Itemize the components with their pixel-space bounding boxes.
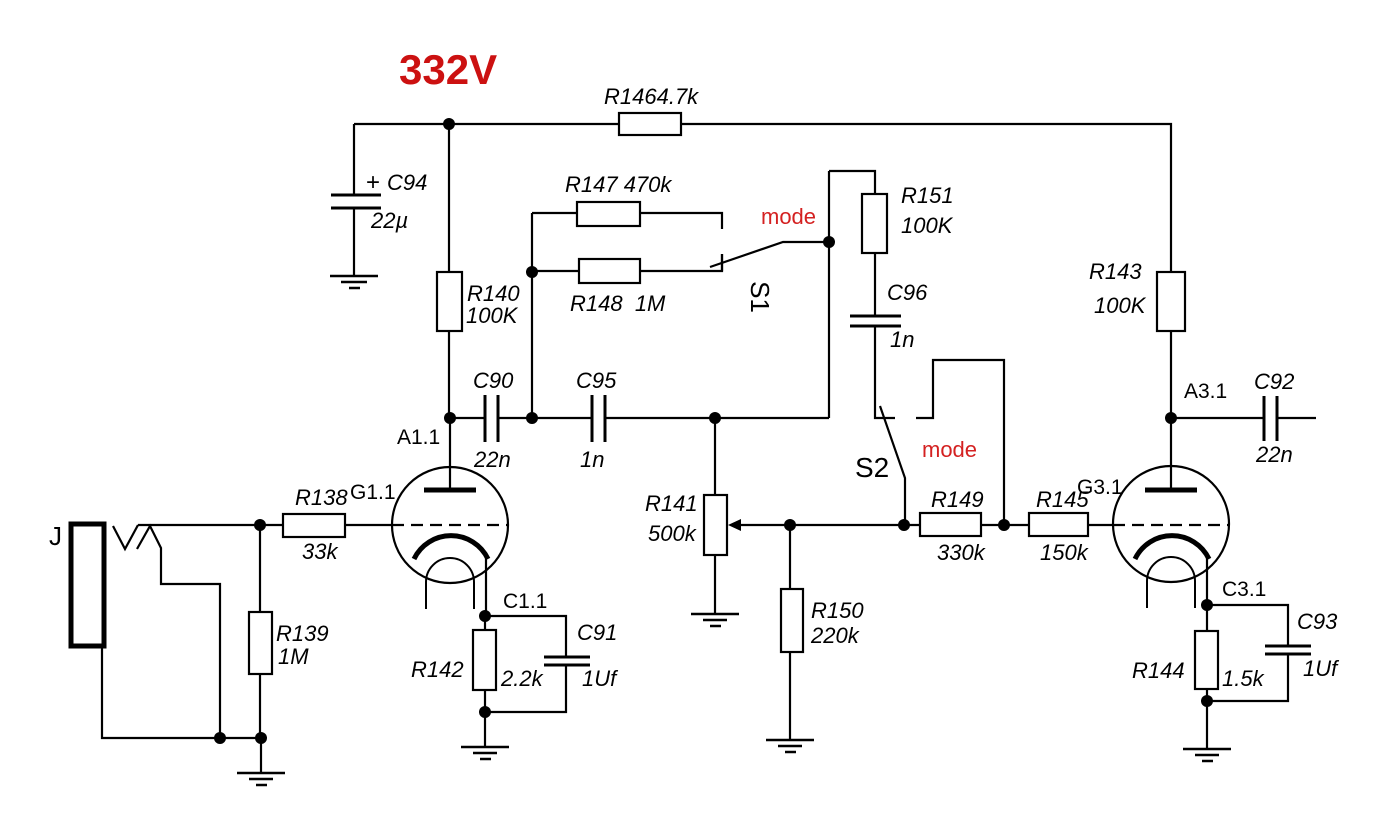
- resistor R147: [577, 202, 640, 226]
- svg-text:R151: R151: [901, 183, 954, 208]
- svg-text:R142: R142: [411, 657, 464, 682]
- node A3.1: [1165, 412, 1177, 424]
- resistor R151: [862, 194, 887, 253]
- resistor R139: [259, 525, 261, 612]
- capacitor C95: [591, 395, 594, 442]
- node junction grid node: [254, 519, 266, 531]
- wire jack tip to grid node: [138, 524, 260, 526]
- jack spring contact V: [113, 525, 138, 549]
- wire top rail left segment: [354, 123, 619, 125]
- resistor R143: [1157, 272, 1185, 331]
- svg-text:+: +: [366, 169, 380, 196]
- wire R147 right: [640, 213, 722, 229]
- resistor R140: [437, 272, 462, 331]
- svg-text:330k: 330k: [937, 540, 986, 565]
- tube 1 grid dashed: [392, 524, 508, 526]
- wire cathode lead tube 1: [485, 558, 487, 616]
- svg-text:1n: 1n: [890, 327, 914, 352]
- resistor R145: [1029, 513, 1088, 536]
- capacitor C91 loop: [485, 616, 566, 656]
- svg-text:R141: R141: [645, 491, 698, 516]
- capacitor C94: [353, 124, 355, 194]
- tube 1 heater dome: [426, 558, 474, 609]
- svg-text:1M: 1M: [278, 644, 309, 669]
- switch S1 fixed contact upper: [721, 254, 723, 271]
- jack J body: [71, 524, 104, 646]
- svg-text:150k: 150k: [1040, 540, 1089, 565]
- wire R151 to C96: [874, 253, 876, 315]
- wire C95 to S1 bus: [605, 417, 829, 419]
- resistor R146: [619, 113, 681, 135]
- node junction R142 bottom: [479, 706, 491, 718]
- resistor R148: [579, 259, 640, 283]
- svg-text:22n: 22n: [1255, 442, 1293, 467]
- svg-text:R1464.7k: R1464.7k: [604, 84, 699, 109]
- ground under R142: [461, 747, 509, 759]
- svg-text:S1: S1: [745, 281, 775, 313]
- svg-text:C94: C94: [387, 170, 427, 195]
- resistor R138: [260, 524, 283, 526]
- svg-text:G3.1: G3.1: [1077, 476, 1123, 499]
- node junction R144 bottom: [1201, 695, 1213, 707]
- svg-text:C91: C91: [577, 620, 617, 645]
- svg-text:22µ: 22µ: [370, 208, 408, 233]
- wire R147/R148 left bus: [531, 213, 533, 418]
- wire C96 to S2 contact: [875, 326, 895, 418]
- wire jack sleeve to bottom rail: [102, 648, 261, 738]
- node C3.1 junction: [1201, 599, 1213, 611]
- wire wiper row to S2: [790, 524, 920, 526]
- svg-text:R148 1M: R148 1M: [570, 291, 666, 316]
- svg-text:R149: R149: [931, 487, 984, 512]
- node junction R141 top: [709, 412, 721, 424]
- svg-text:J: J: [49, 521, 62, 551]
- capacitor C96: [850, 315, 901, 318]
- svg-text:A1.1: A1.1: [397, 426, 440, 449]
- tube 2 plate: [1145, 488, 1197, 493]
- switch S2 arm: [880, 406, 905, 525]
- wire S1 top to R151: [829, 171, 875, 194]
- node junction S2 bottom: [898, 519, 910, 531]
- wire R144 to ground: [1206, 701, 1208, 749]
- tube 2 cathode: [1135, 536, 1209, 559]
- resistor R149: [920, 513, 981, 536]
- svg-text:220k: 220k: [810, 623, 860, 648]
- jack spring contact arm: [137, 526, 220, 738]
- svg-text:100K: 100K: [466, 303, 519, 328]
- resistor R150: [789, 525, 791, 589]
- svg-text:1Uf: 1Uf: [1303, 656, 1340, 681]
- svg-text:1Uf: 1Uf: [582, 666, 619, 691]
- svg-text:S2: S2: [855, 452, 889, 483]
- wire rail to R140: [448, 124, 450, 272]
- svg-text:332V: 332V: [399, 46, 497, 93]
- wire S1 vertical: [828, 171, 830, 418]
- svg-text:mode: mode: [922, 437, 977, 462]
- wire cathode lead tube 2: [1206, 558, 1208, 605]
- svg-text:C3.1: C3.1: [1222, 578, 1266, 601]
- wire C92 out: [1277, 417, 1316, 419]
- node C1.1 junction: [479, 610, 491, 622]
- capacitor C93 loop: [1207, 605, 1288, 645]
- wire to R147: [532, 212, 577, 214]
- svg-text:500k: 500k: [648, 521, 697, 546]
- svg-text:R138: R138: [295, 485, 348, 510]
- svg-text:G1.1: G1.1: [350, 481, 396, 504]
- svg-text:100K: 100K: [901, 213, 954, 238]
- switch S1 arm: [710, 242, 829, 267]
- potentiometer R141: [704, 495, 727, 555]
- svg-text:1.5k: 1.5k: [1222, 666, 1265, 691]
- tube 1 cathode: [414, 536, 488, 559]
- node junction wiper/R150: [784, 519, 796, 531]
- svg-text:R139: R139: [276, 621, 329, 646]
- wire C90 to C95: [498, 417, 592, 419]
- wiper arrow R141: [728, 519, 741, 531]
- svg-text:C92: C92: [1254, 369, 1294, 394]
- node junction C90/R148 bus: [526, 412, 538, 424]
- wire R141 to ground: [714, 555, 716, 614]
- wire R145 to tube 2 grid: [1088, 524, 1113, 526]
- wire S2 right contact hook: [916, 360, 1004, 525]
- svg-text:22n: 22n: [473, 447, 511, 472]
- tube 1 plate: [424, 488, 476, 493]
- op triode U1 tube A1.1 envelope: [392, 467, 508, 583]
- wire R150 to ground: [789, 652, 791, 740]
- resistor R144: [1206, 605, 1208, 631]
- wire anode lead tube 2: [1170, 418, 1172, 490]
- node junction rail/R140: [443, 118, 455, 130]
- wire R140 to node: [448, 331, 450, 418]
- op triode U2 tube G3.1 envelope: [1113, 466, 1229, 582]
- tube 2 heater dome: [1147, 557, 1195, 608]
- svg-text:2.2k: 2.2k: [500, 666, 544, 691]
- node junction bottom rail 1: [214, 732, 226, 744]
- node junction bottom rail 2: [255, 732, 267, 744]
- wire R138 to tube 1: [345, 524, 392, 526]
- svg-text:33k: 33k: [302, 539, 338, 564]
- node junction R148 left: [526, 266, 538, 278]
- wire R142 to ground: [484, 712, 486, 747]
- svg-text:1n: 1n: [580, 447, 604, 472]
- wire A3.1 to C92: [1171, 417, 1263, 419]
- wire R143 to A3.1: [1170, 331, 1172, 418]
- node junction at anode A1.1: [444, 412, 456, 424]
- resistor R142: [484, 616, 486, 630]
- wire to R148: [532, 270, 579, 272]
- ground under R141: [691, 614, 739, 626]
- tube 2 grid dashed: [1113, 524, 1229, 526]
- wire node to R141: [714, 418, 716, 495]
- wire anode lead tube 1: [449, 418, 451, 490]
- svg-text:A3.1: A3.1: [1184, 380, 1227, 403]
- node junction hook/R149/R145: [998, 519, 1010, 531]
- wire C94 to ground: [353, 208, 355, 276]
- wire top rail right segment: [681, 124, 1171, 272]
- ground bottom rail: [260, 738, 262, 773]
- ground under C94: [330, 276, 378, 288]
- node junction S1 out: [823, 236, 835, 248]
- svg-text:C93: C93: [1297, 609, 1338, 634]
- svg-text:R147 470k: R147 470k: [565, 172, 672, 197]
- ground under R150: [766, 740, 814, 752]
- capacitor C90: [484, 395, 487, 442]
- capacitor C92: [1263, 396, 1266, 441]
- svg-text:C90: C90: [473, 368, 514, 393]
- svg-text:C96: C96: [887, 280, 928, 305]
- svg-text:R143: R143: [1089, 259, 1142, 284]
- svg-text:mode: mode: [761, 204, 816, 229]
- svg-text:R150: R150: [811, 598, 864, 623]
- wire R148 right: [640, 254, 722, 271]
- svg-text:100K: 100K: [1094, 293, 1147, 318]
- svg-text:C1.1: C1.1: [503, 590, 547, 613]
- svg-text:R144: R144: [1132, 658, 1185, 683]
- wire main node row: [450, 417, 484, 419]
- ground under R144: [1183, 749, 1231, 761]
- svg-text:C95: C95: [576, 368, 617, 393]
- wire R149 to R145: [981, 524, 1029, 526]
